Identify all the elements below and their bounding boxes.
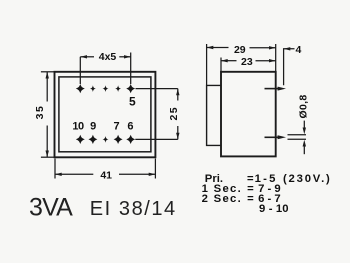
svg-text:41: 41 <box>100 169 112 181</box>
dimension 41: right arrowhead <box>149 173 156 176</box>
dimension 0,8: extension line below pin <box>288 138 307 140</box>
unused pin position (bottom row, small star) <box>103 136 109 143</box>
bottom row pin labels 10 9 7 6 <box>72 121 133 133</box>
top view: transformer outer outline <box>55 72 156 158</box>
dimension 29: extension line left <box>206 44 208 85</box>
dimension 23: right arrowhead <box>269 59 276 62</box>
svg-text:23: 23 <box>241 56 253 68</box>
side view: transformer body <box>221 72 276 157</box>
svg-text:35: 35 <box>34 105 46 120</box>
pin 6 (bottom row, large) <box>126 135 135 144</box>
svg-text:2 Sec.: 2 Sec. <box>202 193 242 205</box>
dimension 4: arrowhead <box>284 47 291 50</box>
svg-text:3VA: 3VA <box>29 193 73 221</box>
pin 7 (bottom row, large) <box>114 135 123 144</box>
dimension 23: extension line left (body edge extended) <box>220 58 222 72</box>
side view: upper pin <box>265 87 287 91</box>
dimension 4x5: extension line left <box>79 57 81 84</box>
top view: bobbin inner outline <box>59 77 151 152</box>
dimension 4x5: right arrowhead <box>124 55 131 58</box>
dimension 0,8: upper arrow <box>303 121 306 135</box>
unused pin position (top row, small star) <box>103 85 109 92</box>
dimension 25: bottom arrowhead <box>176 133 179 140</box>
svg-text:9: 9 <box>90 121 96 133</box>
svg-text:9 - 10: 9 - 10 <box>259 203 289 215</box>
svg-text:29: 29 <box>234 44 246 56</box>
dimension 29: extension line right <box>275 44 277 72</box>
dimension 29: left arrowhead <box>207 46 214 49</box>
pin 5 (top row right, large) <box>126 84 135 93</box>
dimension 35: bottom arrowhead <box>46 151 49 158</box>
dimension 25: connector line from pin 6 <box>135 138 178 140</box>
svg-text:(230V.): (230V.) <box>283 173 332 185</box>
dimension 0,8: extension line above pin <box>288 134 307 136</box>
unused pin position (top row, small star) <box>115 85 121 92</box>
pin 9 (bottom row, large) <box>88 135 97 144</box>
unused pin position (top row, small star) <box>90 85 96 92</box>
dimension 25: connector line from pin 5 <box>136 88 178 90</box>
side view: core lamination stack (left protrusion) <box>207 85 221 145</box>
dimension 4: extension line at pin tip <box>284 49 295 86</box>
svg-text:Ø0,8: Ø0,8 <box>297 95 309 119</box>
dimension 41: dimension line (broken for text) <box>55 173 155 175</box>
pin 10 (bottom row, large) <box>76 135 85 144</box>
dimension 35: dimension line (broken for text) <box>46 72 48 157</box>
svg-text:5: 5 <box>129 94 136 108</box>
svg-text:25: 25 <box>168 106 180 121</box>
dimension 41: extension line right <box>154 159 156 179</box>
dimension 41: extension line left <box>54 159 56 179</box>
pin 1 (top row left, large) <box>76 84 85 93</box>
dimension 35: extension line bottom <box>41 156 55 158</box>
svg-text:EI 38/14: EI 38/14 <box>90 198 177 220</box>
winding spec: line 1 Pri. <box>205 173 332 185</box>
svg-text:=: = <box>247 193 254 205</box>
dimension 0,8: lower arrow <box>303 140 306 154</box>
svg-text:7: 7 <box>114 121 120 133</box>
svg-text:4: 4 <box>295 44 301 56</box>
dimension 4x5: left arrowhead <box>80 55 87 58</box>
svg-text:10: 10 <box>72 121 84 133</box>
dimension 35: extension line top <box>41 71 55 73</box>
svg-text:4x5: 4x5 <box>99 51 117 63</box>
dimension 23: dimension line (broken for text) <box>221 60 276 62</box>
dimension 25: top arrowhead <box>176 89 179 96</box>
dimension 35: top arrowhead <box>46 72 49 79</box>
dimension 41: left arrowhead <box>55 173 62 176</box>
dimension 29: right arrowhead <box>269 46 276 49</box>
dimension 29: dimension line (broken for text) <box>207 47 276 49</box>
dimension 23: left arrowhead <box>221 59 228 62</box>
dimension 25: dimension line (broken for text) <box>177 89 179 140</box>
winding spec: line 3, 2 Sec. <box>202 193 281 205</box>
winding spec: line 4 continuation <box>259 203 289 215</box>
side view: lower pin <box>265 135 287 139</box>
winding spec: line 2, 1 Sec. <box>202 183 281 195</box>
dimension 4x5: extension line right <box>130 53 132 85</box>
svg-text:6: 6 <box>127 121 133 133</box>
dimension 4x5: dimension line <box>80 56 130 58</box>
